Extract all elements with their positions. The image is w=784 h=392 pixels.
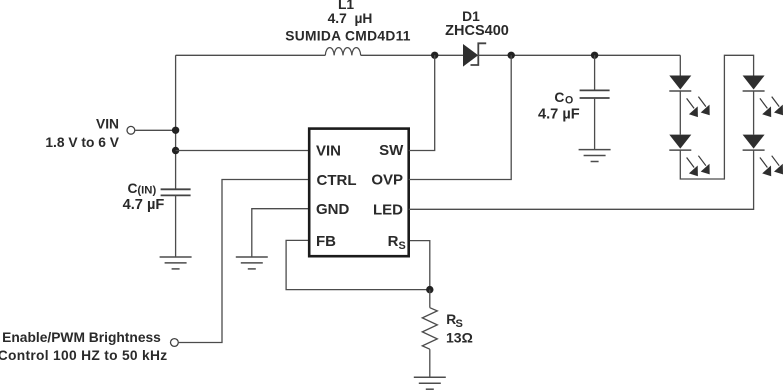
resistor RS [422,308,437,350]
ground CIN [160,257,192,269]
svg-text:C: C [554,90,564,105]
wire RS pin down [409,241,430,290]
wire between LEDs col1 [679,91,681,135]
LED D3 [669,135,709,177]
wire RS resistor top [429,290,431,308]
wire GND pin to ground [252,209,309,257]
LED D4 [743,76,783,118]
wire CTRL to enable terminal [179,180,310,343]
svg-text:VIN: VIN [96,117,119,132]
ground GND pin [236,257,268,269]
node VIN-terminal junction [172,127,179,134]
wire between LEDs col2 [753,91,755,135]
node junction OVP rail [508,52,515,59]
wire LED pin long [409,150,754,209]
wire SW riser [409,55,435,150]
diode D1 (schottky) [463,44,478,67]
wire diode to LED column 1 [478,54,680,56]
IC U1 [309,129,409,257]
svg-text:13Ω: 13Ω [446,329,473,345]
svg-text:ZHCS400: ZHCS400 [445,23,509,39]
svg-text:1.8 V to 6 V: 1.8 V to 6 V [45,135,119,150]
node VIN-pin junction [172,147,179,154]
wire col1 bottom to riser [680,55,753,179]
wire CO to ground [594,98,596,150]
svg-text:GND: GND [316,201,350,218]
enable terminal [171,339,179,347]
svg-text:4.7 µF: 4.7 µF [538,106,580,122]
wire inductor to diode [361,54,463,56]
svg-text:O: O [565,95,573,107]
svg-text:SW: SW [379,142,404,159]
svg-text:4.7 µF: 4.7 µF [123,197,165,213]
svg-text:R: R [388,233,399,250]
ground RS [414,377,446,389]
svg-text:Control 100 HZ to 50 kHz: Control 100 HZ to 50 kHz [0,348,167,363]
VIN terminal [127,126,135,134]
svg-text:LED: LED [373,202,403,219]
svg-text:CTRL: CTRL [317,172,357,189]
svg-text:S: S [399,240,406,252]
wire top rail left from VIN column to inductor [176,54,326,56]
wire VIN terminal to node [135,129,175,131]
node FB/RS junction [426,286,433,293]
wire OVP riser [409,55,512,179]
node junction SW rail [431,52,438,59]
ground CO [579,150,611,162]
svg-text:S: S [456,318,463,330]
wire CIN to ground [175,195,177,257]
svg-text:OVP: OVP [371,171,403,188]
svg-text:(IN): (IN) [137,185,156,197]
wire LED column 1 top [679,55,681,75]
inductor L1 coil [325,48,360,56]
LED D2 [669,76,709,118]
svg-text:L1: L1 [338,0,354,12]
svg-text:FB: FB [316,233,336,250]
svg-text:SUMIDA CMD4D11: SUMIDA CMD4D11 [285,28,411,43]
svg-text:Enable/PWM Brightness: Enable/PWM Brightness [2,330,161,345]
svg-text:D1: D1 [462,9,480,24]
node junction CO rail [591,52,598,59]
wire to VIN pin [176,150,310,152]
svg-text:4.7 µH: 4.7 µH [328,11,373,26]
svg-text:VIN: VIN [316,143,341,160]
wire VIN vertical column [175,55,177,189]
capacitor CIN [161,188,191,190]
svg-text:C: C [128,181,138,196]
wire FB loop [286,240,430,289]
capacitor CO [594,55,596,90]
LED D5 [743,135,783,177]
wire RS to ground [429,349,431,377]
